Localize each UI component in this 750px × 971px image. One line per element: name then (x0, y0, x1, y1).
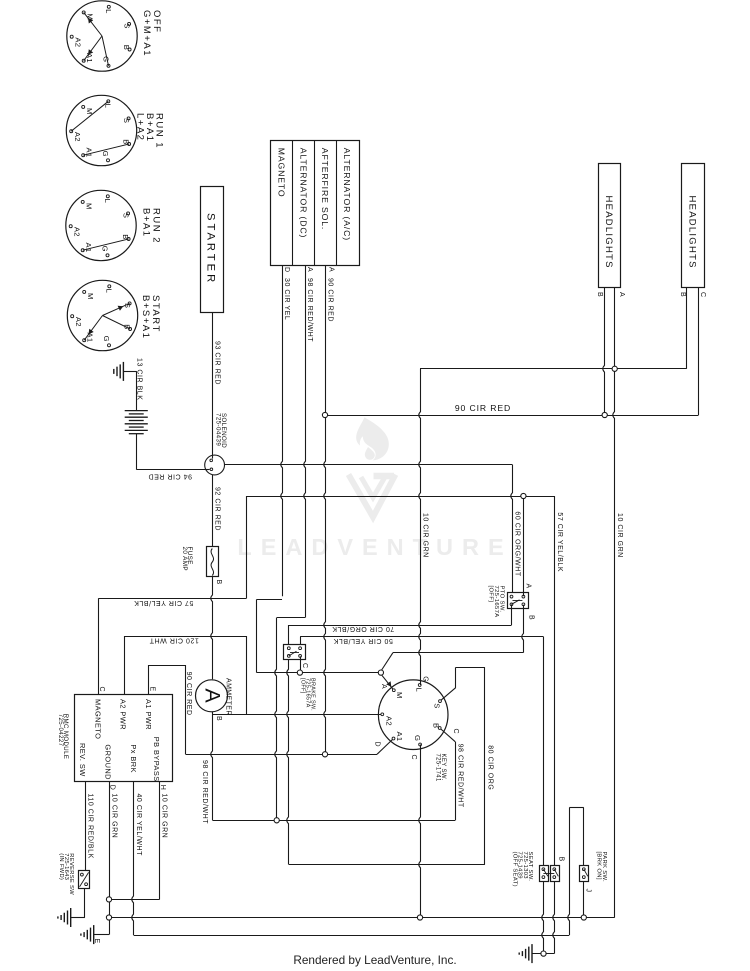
ground for seat switch (519, 944, 532, 963)
svg-text:S: S (122, 118, 131, 123)
svg-text:98 CIR RED/WHT: 98 CIR RED/WHT (201, 760, 208, 824)
LeadVenture watermark logo flame (237, 417, 512, 560)
wire 50 CIR YEL/BLK brake switch to seat switch (300, 637, 543, 866)
svg-text:J: J (584, 889, 591, 893)
svg-text:725-04439: 725-04439 (215, 413, 222, 446)
wire key L 10 CIR GRN up to headlight bus (419, 369, 429, 685)
svg-text:AFTERFIRE SOL.: AFTERFIRE SOL. (320, 148, 330, 230)
fuse 20 AMP (181, 547, 222, 585)
svg-text:MAGNETO: MAGNETO (93, 699, 102, 739)
svg-text:G+M+A1: G+M+A1 (141, 10, 152, 57)
wire module H pin 10 CIR GRN PB BYPASS (109, 781, 167, 899)
wire module Px BRK pin 40 CIR YEL/WHT (132, 781, 142, 935)
wire 94 CIR RED battery to solenoid (137, 470, 205, 480)
svg-text:110 CIR RED/BLK: 110 CIR RED/BLK (87, 794, 94, 859)
wire 90 CIR RED afterfire sol pin A (324, 266, 335, 755)
svg-text:Px BRK: Px BRK (129, 744, 138, 773)
svg-text:B: B (679, 292, 686, 297)
wire diagonal junction to key M (382, 675, 394, 690)
svg-text:E: E (148, 687, 155, 692)
svg-text:725-04227: 725-04227 (57, 714, 64, 747)
svg-text:B: B (596, 292, 603, 297)
svg-text:A2: A2 (73, 227, 82, 237)
svg-text:S: S (122, 213, 131, 218)
svg-text:94 CIR RED: 94 CIR RED (148, 472, 192, 479)
ignition switch state circle RUN 2 (66, 190, 136, 260)
node junction headlight1 A at headlight feed bus (612, 366, 617, 371)
svg-text:92 CIR RED: 92 CIR RED (214, 487, 221, 531)
wire module GROUND pin D 10 CIR GRN (94, 781, 118, 934)
svg-text:M: M (86, 293, 95, 300)
node junction seat left leg at ground line (541, 951, 546, 956)
svg-text:B: B (557, 857, 564, 862)
wire key G to ground bus (419, 745, 421, 918)
svg-text:D: D (283, 267, 290, 273)
solenoid 725-04439 (205, 413, 227, 475)
label START B+S+A1 (140, 295, 161, 339)
svg-text:L+A2: L+A2 (135, 113, 146, 141)
PTO switch 725-1657A (488, 584, 535, 621)
svg-text:57 CIR YEL/BLK: 57 CIR YEL/BLK (556, 512, 563, 572)
svg-text:ALTERNATOR (DC): ALTERNATOR (DC) (298, 148, 308, 238)
svg-text:10 CIR GRN: 10 CIR GRN (110, 794, 117, 839)
svg-text:HEADLIGHTS: HEADLIGHTS (603, 196, 614, 269)
svg-text:A2 PWR: A2 PWR (119, 699, 128, 730)
svg-text:90 CIR RED: 90 CIR RED (327, 278, 334, 322)
svg-text:B: B (122, 139, 131, 144)
svg-text:A: A (380, 684, 387, 689)
ground bus horizontal (109, 917, 615, 919)
label RUN 2 B+A1 (141, 208, 162, 244)
svg-text:A1: A1 (85, 53, 94, 63)
svg-text:120 CIR WHT: 120 CIR WHT (149, 637, 199, 644)
svg-text:D: D (109, 785, 116, 791)
svg-text:[BRK ON]: [BRK ON] (596, 852, 602, 880)
svg-text:B: B (528, 615, 535, 620)
wire 57 CIR YEL/BLK horizontal to module pin C (98, 598, 247, 694)
node junction 98 CIR RED/WHT at x276.7 (274, 818, 279, 823)
svg-text:60 CIR ORG/WHT: 60 CIR ORG/WHT (514, 511, 521, 576)
svg-text:L: L (415, 688, 424, 693)
svg-text:C: C (410, 755, 417, 761)
svg-text:A: A (618, 292, 625, 297)
ignition switch state circle OFF (67, 1, 137, 71)
svg-text:D: D (374, 742, 381, 748)
wire 92 CIR RED solenoid to fuse (213, 475, 221, 547)
svg-text:C: C (301, 663, 308, 669)
svg-text:A: A (328, 267, 335, 272)
svg-text:C: C (452, 729, 459, 735)
node junction module D at ground bus (106, 915, 111, 920)
svg-text:H: H (159, 785, 166, 791)
svg-text:[OFF]: [OFF] (300, 678, 306, 694)
ammeter (196, 678, 232, 824)
wire 120 CIR WHT module A2 PWR to key A2 net (124, 636, 247, 714)
label RUN 1 B+A1 L+A2 (135, 113, 165, 149)
wire reverse switch to ground (71, 889, 85, 918)
svg-text:20 AMP: 20 AMP (181, 547, 188, 571)
headlights box 2 (682, 164, 705, 288)
ground for battery 13 CIR BLK (114, 358, 143, 400)
wire 80 CIR ORG key S to brake switch (287, 656, 494, 864)
svg-text:10 CIR GRN: 10 CIR GRN (160, 794, 167, 839)
svg-text:C: C (699, 292, 706, 298)
svg-text:A: A (201, 688, 225, 703)
node junction module D at H899 (106, 897, 111, 902)
node junction brake C at key M line (297, 670, 302, 675)
svg-text:A1: A1 (84, 243, 93, 253)
wire module REV SW pin 110 CIR RED/BLK (86, 781, 94, 870)
svg-text:B: B (121, 234, 130, 239)
node junction PTO A at bus2 (521, 493, 526, 498)
svg-text:70 CIR ORG/BLK: 70 CIR ORG/BLK (332, 625, 395, 632)
svg-text:(OFF SEAT): (OFF SEAT) (511, 852, 517, 887)
svg-text:A: A (525, 584, 532, 589)
svg-text:MAGNETO: MAGNETO (276, 148, 286, 198)
ground for module pin E (81, 925, 100, 944)
svg-text:C: C (98, 687, 105, 693)
svg-text:(IN FWD): (IN FWD) (58, 853, 64, 880)
svg-text:AMMETER: AMMETER (225, 678, 232, 716)
engine component box: magneto / alternators / afterfire sol. (271, 141, 360, 266)
wire key S staircase (440, 667, 485, 701)
svg-text:L: L (105, 289, 114, 294)
svg-text:A2: A2 (74, 317, 83, 327)
svg-text:L: L (103, 199, 112, 204)
wire 90 CIR RED horizontal to key A1 diagonal (186, 739, 394, 755)
svg-text:REV. SW: REV. SW (78, 743, 87, 777)
node junction key M wire (378, 670, 383, 675)
svg-text:10 CIR GRN: 10 CIR GRN (616, 513, 623, 558)
svg-text:A2: A2 (73, 132, 82, 142)
LeadVenture watermark V mark (349, 475, 396, 518)
node junction 90 CIR RED at H754 (322, 752, 327, 757)
svg-text:725-1741: 725-1741 (435, 754, 441, 782)
svg-text:LEADVENTURE: LEADVENTURE (237, 534, 512, 560)
node junction key G at ground bus (417, 915, 422, 920)
arrow on key M diagonal (386, 681, 391, 687)
svg-text:A2: A2 (74, 37, 83, 47)
wire 93 CIR RED starter to solenoid (213, 312, 221, 455)
svg-text:GROUND: GROUND (103, 744, 112, 780)
svg-text:A2: A2 (385, 716, 394, 726)
svg-text:ALTERNATOR (A/C): ALTERNATOR (A/C) (342, 148, 352, 241)
wire park switch legs (583, 808, 585, 918)
wire module E pin 90 CIR RED (148, 665, 192, 754)
svg-text:50 CIR YEL/BLK: 50 CIR YEL/BLK (333, 637, 393, 644)
brake switch 725-1657A (284, 645, 316, 712)
wire brake C to key M junction line (257, 656, 381, 672)
wire 98 CIR RED/WHT alternator dc pin A (304, 266, 313, 618)
svg-text:S: S (123, 23, 132, 28)
bus2 57 CIR YEL/BLK horizontal (247, 496, 555, 598)
node junction headlight1 B at 90 CIR RED bus (602, 412, 607, 417)
svg-text:G: G (422, 676, 429, 682)
svg-text:M: M (85, 203, 94, 210)
key switch 725-1741 (378, 676, 459, 782)
ignition switch state circle START (67, 280, 137, 350)
wire PTO pin A stub to bus2 (523, 496, 525, 596)
wire seat switch right leg to ground line (532, 881, 555, 954)
svg-text:G: G (102, 336, 111, 342)
svg-text:B+A1: B+A1 (141, 208, 152, 238)
svg-text:B+S+A1: B+S+A1 (140, 295, 151, 339)
svg-text:[OFF]: [OFF] (488, 586, 494, 603)
wire bus from solenoid to PTO 60 CIR ORG/WHT (225, 465, 521, 597)
wire jog 30 CIR YEL to x256.6 (257, 599, 283, 672)
svg-text:98 CIR RED/WHT: 98 CIR RED/WHT (306, 278, 313, 342)
battery (125, 371, 148, 469)
svg-text:STARTER: STARTER (204, 213, 216, 285)
wire headlight 1 pin A / 10 CIR GRN long ground run (613, 288, 625, 918)
svg-text:A1: A1 (85, 148, 94, 158)
wire 70 CIR ORG/BLK PTO bottom-left to brake switch (289, 605, 512, 648)
headlights box 1 (599, 164, 621, 288)
wire jog 98 CIR RED/WHT to x276.7 (275, 618, 305, 821)
svg-text:90 CIR RED: 90 CIR RED (185, 672, 192, 716)
svg-text:G: G (101, 151, 110, 157)
svg-text:A: A (306, 267, 313, 272)
wire headlight 1 pin B (596, 288, 605, 416)
park switch BRK ON (580, 852, 607, 893)
svg-text:Rendered by LeadVenture, Inc.: Rendered by LeadVenture, Inc. (293, 953, 456, 967)
svg-text:B: B (215, 716, 222, 721)
wire 98 CIR RED/WHT horizontal to key B (213, 728, 464, 821)
svg-text:A1: A1 (395, 732, 404, 742)
starter box (201, 187, 224, 313)
wire headlight 2 pin C (699, 288, 707, 416)
svg-text:90 CIR RED: 90 CIR RED (455, 403, 511, 413)
ignition switch state circle RUN 1 (66, 95, 136, 165)
svg-text:93 CIR RED: 93 CIR RED (214, 341, 221, 385)
svg-text:B: B (432, 723, 441, 728)
svg-text:PB BYPASS: PB BYPASS (152, 737, 161, 782)
svg-text:10 CIR GRN: 10 CIR GRN (421, 513, 428, 558)
wire fuse output to ammeter (211, 577, 213, 680)
svg-text:M: M (395, 692, 404, 699)
wire seat switch left leg to ground line (542, 881, 544, 954)
svg-text:S: S (433, 703, 442, 708)
svg-text:30 CIR YEL: 30 CIR YEL (283, 278, 290, 320)
svg-text:E: E (93, 939, 100, 944)
wire ammeter B to key A2 horizontal (213, 714, 383, 716)
svg-text:HEADLIGHTS: HEADLIGHTS (686, 196, 697, 269)
svg-text:80 CIR ORG: 80 CIR ORG (486, 745, 493, 790)
svg-text:A1 PWR: A1 PWR (144, 699, 153, 730)
ground for reverse switch (58, 908, 71, 927)
svg-text:G: G (101, 246, 110, 252)
node junction park switch at ground bus (581, 915, 586, 920)
svg-text:L: L (104, 9, 113, 14)
wire headlight 2 pin B (679, 288, 687, 369)
RMC module 725-04227 (57, 695, 173, 782)
wire 40 CIR YEL/WHT horizontal to park switch (134, 808, 584, 936)
svg-text:98 CIR RED/WHT: 98 CIR RED/WHT (457, 744, 464, 808)
svg-text:G: G (413, 735, 422, 741)
svg-text:B: B (122, 45, 131, 50)
label OFF G+M+A1 (141, 10, 162, 57)
wire 57 CIR YEL/BLK vertical to seat switch (555, 496, 563, 865)
wire PTO pin B to key S and 80 CIR ORG (381, 605, 523, 671)
svg-text:40 CIR YEL/WHT: 40 CIR YEL/WHT (135, 794, 142, 857)
svg-text:B: B (215, 580, 222, 585)
wire 30 CIR YEL magneto pin D (281, 266, 290, 597)
wire 90 CIR RED horizontal bus to headlights (325, 403, 699, 415)
svg-text:57 CIR YEL/BLK: 57 CIR YEL/BLK (134, 599, 194, 606)
wire headlight feed horizontal from key L (420, 368, 687, 370)
seat switch 725-1303 / 725-1439 (511, 852, 564, 887)
reverse switch 725-1643 (58, 853, 90, 895)
node junction 90 CIR RED bus at afterfire wire (322, 412, 327, 417)
svg-text:A1: A1 (86, 333, 95, 343)
